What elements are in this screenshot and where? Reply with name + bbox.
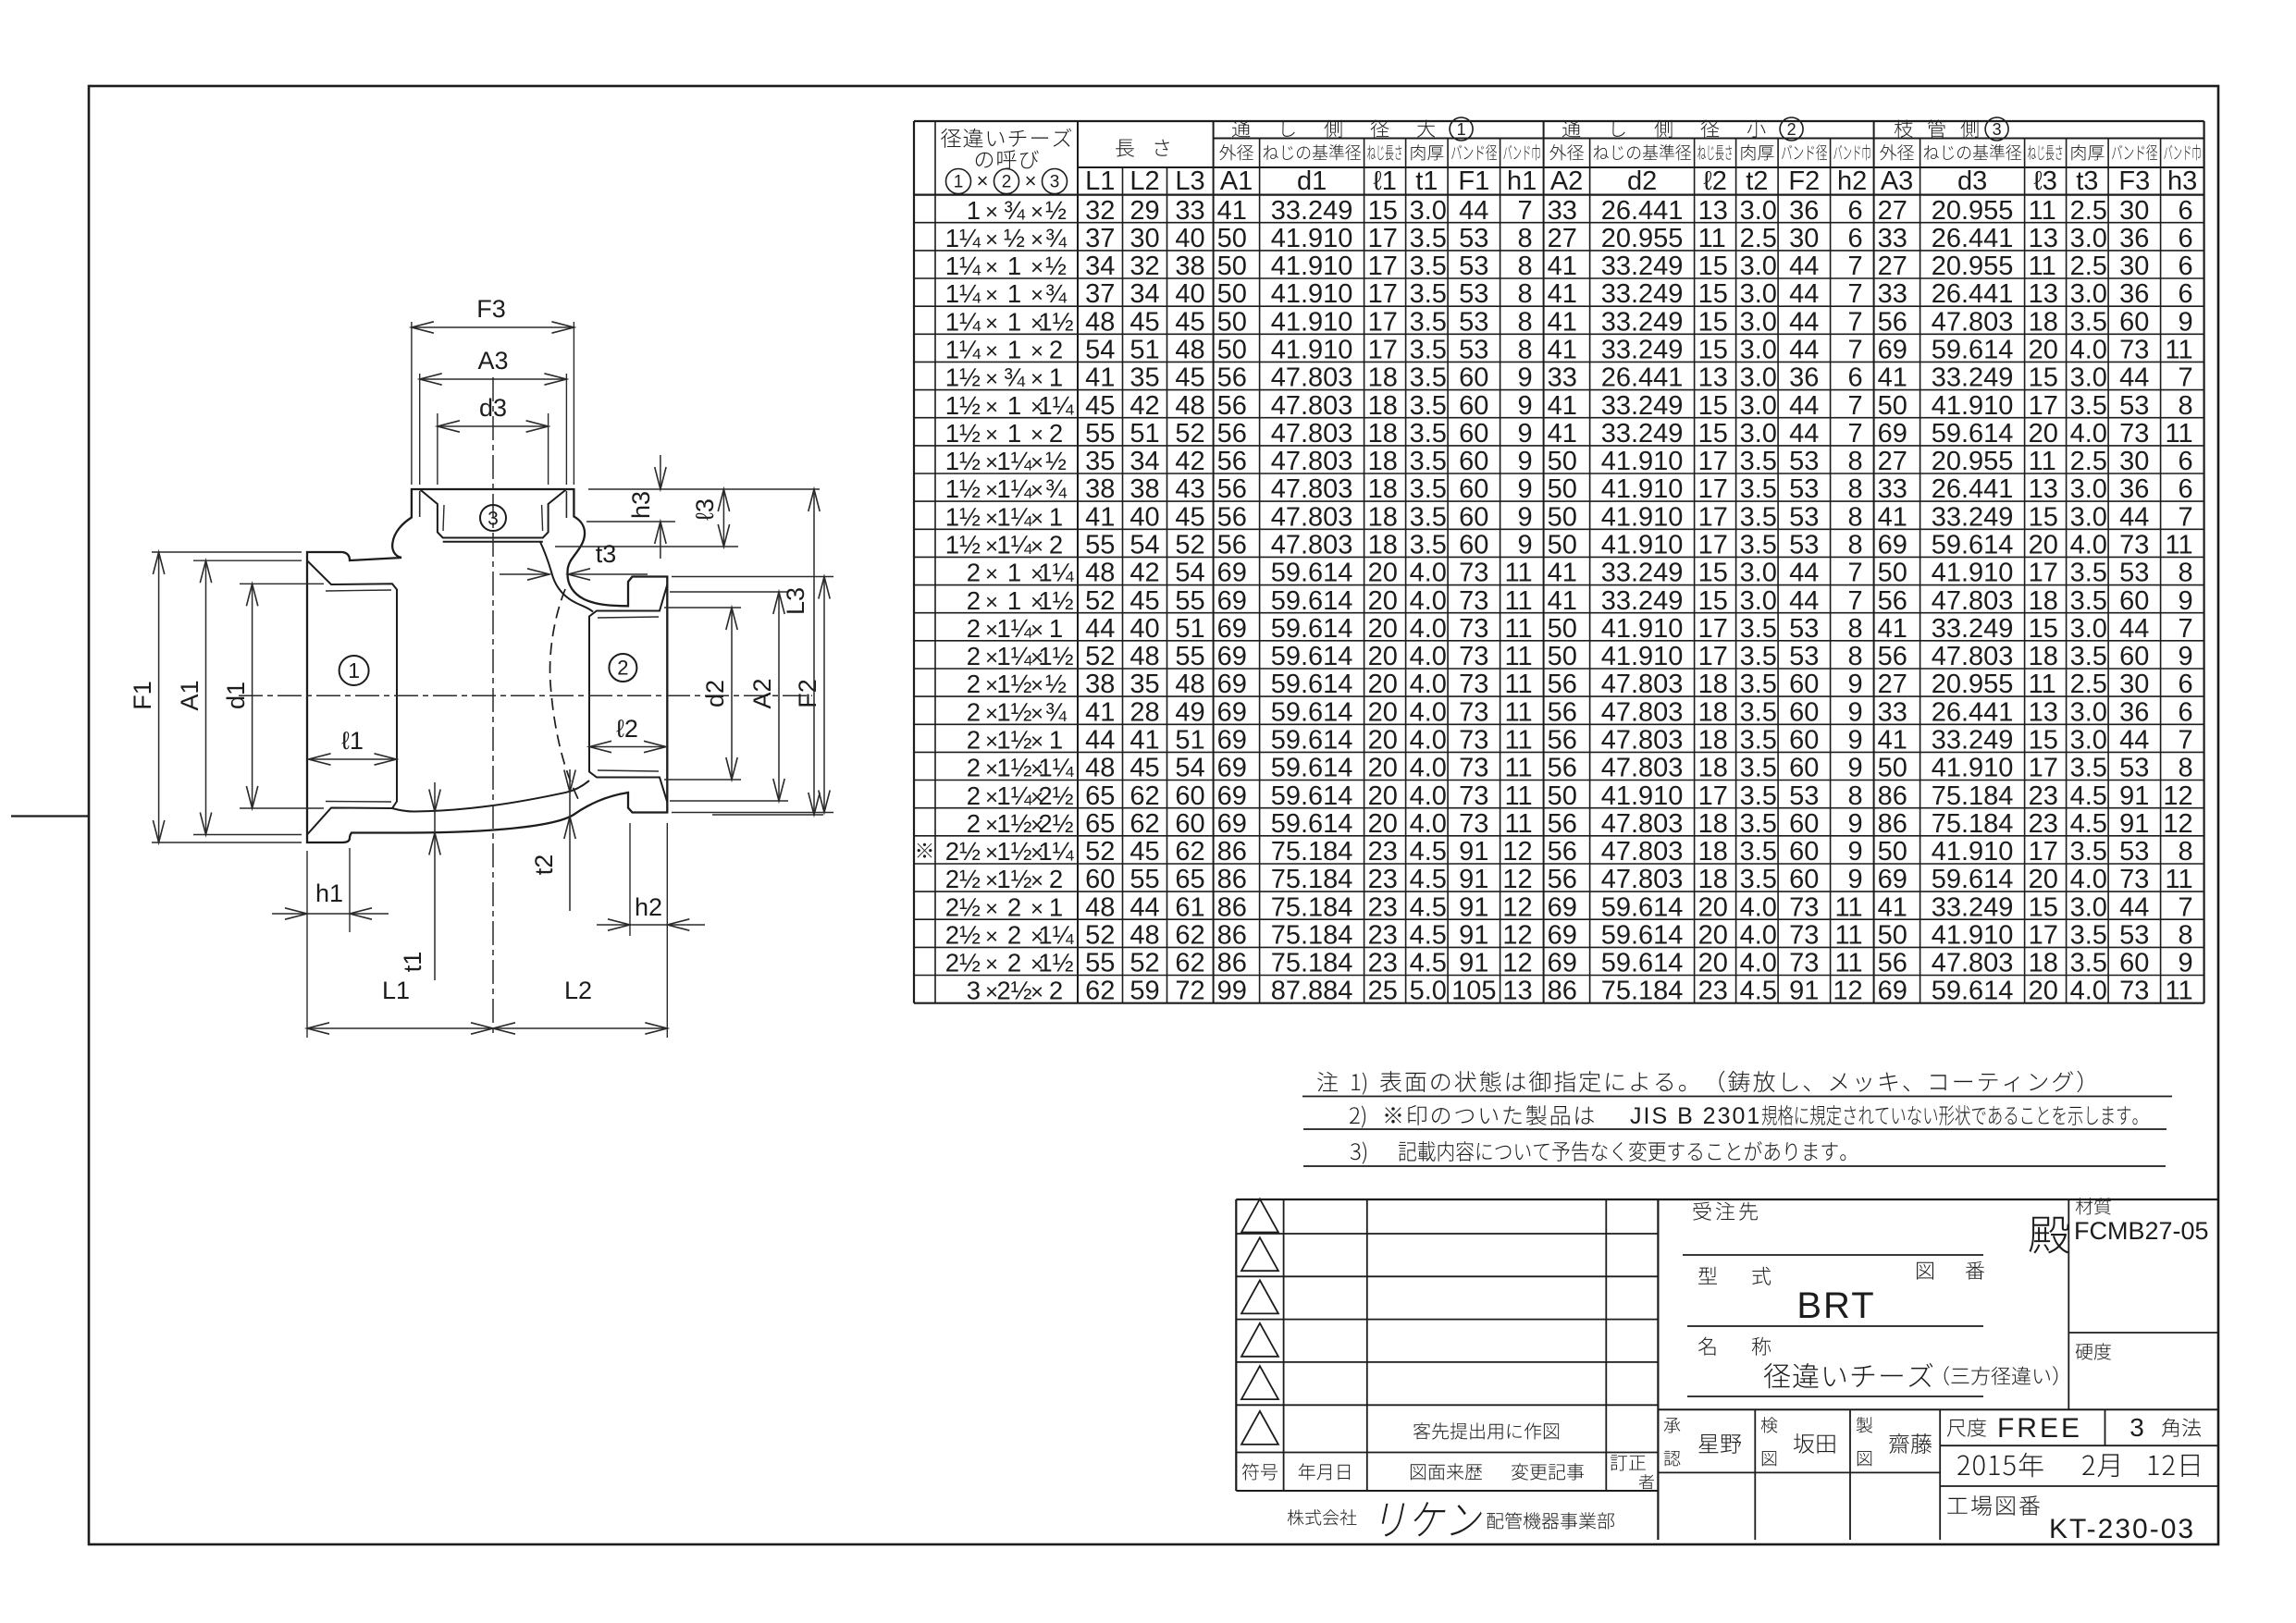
svg-text:9: 9 — [2178, 586, 2192, 616]
svg-text:t3: t3 — [2076, 166, 2098, 196]
svg-text:40: 40 — [1129, 502, 1159, 532]
svg-text:41: 41 — [1217, 196, 1247, 226]
sheet centering mark left edge — [11, 815, 89, 817]
svg-text:4.0: 4.0 — [1410, 754, 1447, 783]
svg-text:41: 41 — [1548, 559, 1577, 588]
svg-text:41.910: 41.910 — [1601, 474, 1684, 504]
svg-text:72: 72 — [1175, 977, 1204, 1006]
svg-text:3.5: 3.5 — [2070, 559, 2107, 588]
svg-text:27: 27 — [1878, 196, 1907, 226]
svg-text:6: 6 — [2178, 447, 2192, 476]
svg-text:3.0: 3.0 — [2070, 363, 2107, 393]
svg-text:2.5: 2.5 — [1740, 224, 1777, 253]
svg-text:91: 91 — [2119, 809, 2149, 839]
svg-text:33.249: 33.249 — [1601, 391, 1684, 421]
svg-text:18: 18 — [1698, 670, 1728, 699]
svg-text:69: 69 — [1217, 697, 1247, 727]
svg-text:30: 30 — [2119, 196, 2149, 226]
dim A1 — [193, 559, 302, 561]
svg-text:48: 48 — [1085, 307, 1115, 337]
dim h1 — [306, 851, 308, 1038]
svg-text:9: 9 — [1847, 670, 1862, 699]
dim d3 — [437, 413, 438, 485]
svg-text:41.910: 41.910 — [1601, 531, 1684, 560]
svg-text:41: 41 — [1085, 363, 1115, 393]
svg-text:56: 56 — [1217, 531, 1247, 560]
svg-text:86: 86 — [1878, 781, 1907, 811]
svg-text:12: 12 — [1502, 892, 1532, 922]
dim t3 — [500, 573, 549, 575]
svg-text:4.0: 4.0 — [1740, 921, 1777, 951]
svg-text:27: 27 — [1548, 224, 1577, 253]
svg-text:32: 32 — [1129, 252, 1159, 281]
svg-text:3.0: 3.0 — [1740, 559, 1777, 588]
svg-text:×: × — [985, 953, 998, 977]
svg-text:26.441: 26.441 — [1932, 279, 2014, 309]
svg-text:×: × — [1031, 283, 1043, 308]
svg-text:11: 11 — [2165, 419, 2192, 449]
svg-text:30: 30 — [2119, 252, 2149, 281]
svg-text:33: 33 — [1878, 224, 1907, 253]
svg-text:13: 13 — [1698, 363, 1728, 393]
svg-text:17: 17 — [2029, 559, 2058, 588]
dim t1 — [434, 782, 436, 980]
svg-text:50: 50 — [1878, 837, 1907, 867]
svg-text:13: 13 — [2029, 279, 2058, 309]
svg-text:30: 30 — [1129, 224, 1159, 253]
svg-text:48: 48 — [1085, 559, 1115, 588]
svg-text:33.249: 33.249 — [1601, 307, 1684, 337]
dim F1 — [152, 551, 302, 553]
svg-text:4.0: 4.0 — [1410, 559, 1447, 588]
svg-text:1½: 1½ — [996, 697, 1031, 726]
svg-text:69: 69 — [1217, 614, 1247, 644]
svg-text:30: 30 — [1789, 224, 1819, 253]
svg-text:55: 55 — [1085, 949, 1115, 978]
svg-text:1: 1 — [954, 173, 964, 192]
svg-text:75.184: 75.184 — [1271, 865, 1353, 894]
svg-text:×: × — [985, 590, 998, 615]
svg-text:41.910: 41.910 — [1601, 502, 1684, 532]
svg-text:49: 49 — [1175, 697, 1204, 727]
dim d2 — [664, 607, 741, 609]
svg-text:41: 41 — [1548, 252, 1577, 281]
tee fitting body outer profile — [307, 489, 667, 842]
svg-text:17: 17 — [1698, 781, 1728, 811]
svg-text:91: 91 — [1459, 865, 1488, 894]
svg-text:36: 36 — [2119, 697, 2149, 727]
svg-text:33.249: 33.249 — [1932, 892, 2014, 922]
svg-text:59.614: 59.614 — [1271, 781, 1353, 811]
svg-text:1¼: 1¼ — [996, 447, 1032, 475]
svg-text:12: 12 — [2163, 781, 2192, 811]
svg-text:20: 20 — [1368, 586, 1398, 616]
svg-text:50: 50 — [1548, 502, 1577, 532]
svg-text:t1: t1 — [399, 952, 426, 973]
svg-text:18: 18 — [1698, 809, 1728, 839]
svg-text:×: × — [985, 896, 998, 921]
table header: name column — [941, 129, 1071, 148]
svg-text:4.0: 4.0 — [1410, 809, 1447, 839]
svg-text:11: 11 — [2165, 336, 2192, 365]
svg-text:11: 11 — [2165, 531, 2192, 560]
svg-text:15: 15 — [1698, 279, 1728, 309]
svg-text:×: × — [1031, 255, 1043, 280]
svg-text:47.803: 47.803 — [1601, 697, 1684, 727]
svg-text:×: × — [985, 367, 998, 392]
dim L1 — [307, 1027, 493, 1029]
svg-text:60: 60 — [1459, 531, 1488, 560]
svg-text:3.5: 3.5 — [1740, 502, 1777, 532]
svg-text:48: 48 — [1129, 921, 1159, 951]
svg-text:3.5: 3.5 — [2070, 391, 2107, 421]
svg-text:9: 9 — [1847, 837, 1862, 867]
svg-text:2: 2 — [1007, 949, 1021, 977]
svg-text:1½: 1½ — [945, 363, 981, 392]
svg-text:73: 73 — [1459, 670, 1488, 699]
svg-text:×: × — [1031, 701, 1043, 726]
svg-text:A2: A2 — [748, 678, 776, 708]
svg-text:L1: L1 — [382, 977, 410, 1004]
svg-text:56: 56 — [1217, 391, 1247, 421]
svg-text:18: 18 — [1698, 754, 1728, 783]
svg-text:33.249: 33.249 — [1601, 279, 1684, 309]
svg-text:3.5: 3.5 — [1410, 531, 1447, 560]
svg-text:1: 1 — [348, 658, 360, 682]
svg-text:20: 20 — [1368, 559, 1398, 588]
svg-text:56: 56 — [1217, 419, 1247, 449]
svg-text:59.614: 59.614 — [1601, 949, 1684, 978]
svg-text:15: 15 — [1698, 252, 1728, 281]
svg-text:2½: 2½ — [945, 865, 981, 893]
svg-text:33.249: 33.249 — [1932, 726, 2014, 756]
svg-text:54: 54 — [1129, 531, 1159, 560]
socket 1 interior (left, thread bore) — [307, 560, 397, 834]
svg-text:23: 23 — [2029, 809, 2058, 839]
svg-text:3.0: 3.0 — [2070, 474, 2107, 504]
svg-text:d1: d1 — [1297, 166, 1327, 196]
svg-text:3.0: 3.0 — [1740, 363, 1777, 393]
svg-text:7: 7 — [1847, 279, 1862, 309]
svg-text:×: × — [1031, 506, 1043, 531]
svg-text:17: 17 — [1368, 224, 1398, 253]
svg-text:62: 62 — [1129, 781, 1159, 811]
svg-text:73: 73 — [2119, 419, 2149, 449]
svg-text:h2: h2 — [1837, 166, 1867, 196]
svg-text:56: 56 — [1217, 474, 1247, 504]
svg-text:55: 55 — [1085, 531, 1115, 560]
dim h3 — [588, 488, 820, 490]
svg-text:15: 15 — [2029, 726, 2058, 756]
svg-text:91: 91 — [1459, 921, 1488, 951]
svg-text:3: 3 — [2129, 1413, 2144, 1442]
svg-text:56: 56 — [1548, 865, 1577, 894]
svg-text:65: 65 — [1085, 809, 1115, 839]
svg-text:1¼: 1¼ — [945, 252, 981, 280]
svg-text:20: 20 — [1368, 809, 1398, 839]
svg-text:41: 41 — [1878, 726, 1907, 756]
svg-text:ℓ3: ℓ3 — [2033, 166, 2057, 196]
svg-text:7: 7 — [1847, 586, 1862, 616]
svg-text:FREE: FREE — [1997, 1413, 2082, 1444]
svg-text:3: 3 — [1050, 173, 1060, 192]
svg-text:45: 45 — [1175, 502, 1204, 532]
svg-text:t3: t3 — [596, 540, 617, 568]
svg-text:7: 7 — [1847, 307, 1862, 337]
svg-text:1¼: 1¼ — [1038, 754, 1074, 782]
svg-text:17: 17 — [1698, 474, 1728, 504]
svg-text:5.0: 5.0 — [1410, 977, 1447, 1006]
svg-text:26.441: 26.441 — [1601, 196, 1684, 226]
svg-text:33.249: 33.249 — [1932, 363, 2014, 393]
svg-text:9: 9 — [1847, 754, 1862, 783]
svg-text:6: 6 — [2178, 196, 2192, 226]
svg-text:44: 44 — [1085, 726, 1115, 756]
svg-text:41: 41 — [1085, 697, 1115, 727]
svg-text:40: 40 — [1129, 614, 1159, 644]
svg-text:41: 41 — [1878, 363, 1907, 393]
svg-text:91: 91 — [1459, 949, 1488, 978]
svg-text:59.614: 59.614 — [1271, 642, 1353, 671]
svg-text:3.5: 3.5 — [1410, 474, 1447, 504]
svg-text:23: 23 — [1368, 837, 1398, 867]
svg-text:1¼: 1¼ — [945, 279, 981, 308]
svg-text:×: × — [1031, 673, 1043, 698]
svg-text:1½: 1½ — [996, 754, 1031, 782]
svg-text:36: 36 — [2119, 474, 2149, 504]
svg-text:69: 69 — [1217, 642, 1247, 671]
svg-text:×: × — [1031, 868, 1043, 893]
svg-text:½: ½ — [1045, 252, 1067, 280]
svg-text:ℓ1: ℓ1 — [1373, 166, 1397, 196]
svg-text:33.249: 33.249 — [1601, 419, 1684, 449]
svg-text:23: 23 — [2029, 781, 2058, 811]
svg-text:F3: F3 — [2118, 166, 2150, 196]
svg-text:3.5: 3.5 — [1740, 809, 1777, 839]
svg-text:56: 56 — [1548, 697, 1577, 727]
svg-text:1½: 1½ — [996, 837, 1031, 866]
svg-text:34: 34 — [1129, 447, 1159, 476]
svg-text:15: 15 — [2029, 892, 2058, 922]
svg-text:1: 1 — [967, 196, 981, 225]
svg-text:17: 17 — [1698, 502, 1728, 532]
port number 3 — [480, 505, 506, 531]
svg-text:BRT: BRT — [1796, 1285, 1875, 1326]
svg-text:15: 15 — [1698, 307, 1728, 337]
svg-text:6: 6 — [2178, 697, 2192, 727]
svg-text:×: × — [985, 562, 998, 587]
svg-text:3.0: 3.0 — [1740, 336, 1777, 365]
svg-text:36: 36 — [2119, 279, 2149, 309]
svg-text:×: × — [1031, 423, 1043, 448]
svg-text:53: 53 — [1789, 447, 1819, 476]
svg-text:44: 44 — [1085, 614, 1115, 644]
svg-text:50: 50 — [1878, 391, 1907, 421]
svg-text:3.0: 3.0 — [1740, 307, 1777, 337]
svg-text:9: 9 — [1517, 531, 1532, 560]
svg-text:2: 2 — [967, 697, 981, 726]
svg-text:69: 69 — [1217, 754, 1247, 783]
svg-text:37: 37 — [1085, 279, 1115, 309]
svg-text:20: 20 — [1698, 921, 1728, 951]
svg-text:3.5: 3.5 — [1740, 447, 1777, 476]
svg-text:1¼: 1¼ — [1038, 559, 1074, 587]
svg-text:9: 9 — [1517, 363, 1532, 393]
company row — [1288, 1509, 1357, 1525]
svg-text:60: 60 — [1789, 726, 1819, 756]
svg-text:40: 40 — [1175, 279, 1204, 309]
svg-text:17: 17 — [1368, 336, 1398, 365]
svg-text:45: 45 — [1085, 391, 1115, 421]
svg-text:2: 2 — [967, 642, 981, 670]
svg-text:18: 18 — [1368, 474, 1398, 504]
svg-text:73: 73 — [2119, 865, 2149, 894]
svg-text:8: 8 — [1517, 307, 1532, 337]
svg-text:L3: L3 — [1175, 166, 1204, 196]
svg-text:9: 9 — [1847, 865, 1862, 894]
svg-text:48: 48 — [1175, 336, 1204, 365]
svg-text:L2: L2 — [1129, 166, 1159, 196]
svg-text:8: 8 — [1517, 252, 1532, 281]
svg-text:56: 56 — [1217, 363, 1247, 393]
svg-text:ℓ3: ℓ3 — [691, 498, 719, 521]
svg-text:×: × — [985, 925, 998, 950]
svg-text:4.0: 4.0 — [1410, 614, 1447, 644]
svg-text:26.441: 26.441 — [1932, 697, 2014, 727]
svg-text:52: 52 — [1129, 949, 1159, 978]
svg-text:½: ½ — [1045, 670, 1067, 698]
svg-text:1½: 1½ — [1038, 586, 1073, 615]
svg-text:20.955: 20.955 — [1932, 196, 2014, 226]
svg-text:17: 17 — [1698, 642, 1728, 671]
svg-text:99: 99 — [1217, 977, 1247, 1006]
svg-text:3.5: 3.5 — [2070, 949, 2107, 978]
svg-text:3.5: 3.5 — [2070, 642, 2107, 671]
svg-text:59.614: 59.614 — [1932, 336, 2014, 365]
svg-text:73: 73 — [2119, 336, 2149, 365]
svg-text:59: 59 — [1129, 977, 1159, 1006]
svg-text:20: 20 — [1368, 726, 1398, 756]
svg-text:44: 44 — [1789, 419, 1819, 449]
svg-text:13: 13 — [1502, 977, 1532, 1006]
svg-text:6: 6 — [1847, 363, 1862, 393]
svg-text:½: ½ — [1045, 196, 1067, 225]
svg-text:73: 73 — [1459, 809, 1488, 839]
svg-text:3.5: 3.5 — [1740, 726, 1777, 756]
svg-text:52: 52 — [1085, 837, 1115, 867]
dim l1 — [309, 758, 397, 760]
svg-text:7: 7 — [2178, 614, 2192, 644]
svg-text:41: 41 — [1548, 586, 1577, 616]
approval row — [1658, 1408, 2218, 1410]
svg-text:11: 11 — [2029, 447, 2056, 476]
svg-text:55: 55 — [1129, 865, 1159, 894]
svg-text:2½: 2½ — [945, 837, 981, 866]
svg-text:L1: L1 — [1085, 166, 1115, 196]
svg-text:4.0: 4.0 — [2070, 336, 2107, 365]
svg-text:3.5: 3.5 — [1740, 670, 1777, 699]
svg-text:4.0: 4.0 — [1740, 892, 1777, 922]
svg-text:18: 18 — [2029, 586, 2058, 616]
svg-text:4.0: 4.0 — [1410, 781, 1447, 811]
svg-text:7: 7 — [1847, 559, 1862, 588]
svg-text:105: 105 — [1451, 977, 1496, 1006]
svg-text:1: 1 — [1049, 892, 1063, 921]
svg-text:50: 50 — [1548, 447, 1577, 476]
svg-text:8: 8 — [2178, 391, 2192, 421]
svg-text:4.0: 4.0 — [1410, 586, 1447, 616]
svg-text:73: 73 — [1459, 726, 1488, 756]
svg-text:ℓ1: ℓ1 — [341, 727, 364, 755]
svg-text:62: 62 — [1175, 921, 1204, 951]
svg-text:50: 50 — [1217, 336, 1247, 365]
svg-text:1¼: 1¼ — [996, 781, 1032, 810]
svg-text:47.803: 47.803 — [1271, 419, 1353, 449]
svg-text:53: 53 — [1789, 781, 1819, 811]
svg-text:A2: A2 — [1550, 166, 1583, 196]
svg-text:¾: ¾ — [1004, 363, 1026, 392]
svg-text:3.0: 3.0 — [1740, 586, 1777, 616]
svg-text:60: 60 — [1459, 474, 1488, 504]
svg-text:½: ½ — [1004, 224, 1025, 252]
svg-text:11: 11 — [1834, 949, 1862, 978]
svg-text:17: 17 — [2029, 391, 2058, 421]
svg-text:11: 11 — [1504, 754, 1532, 783]
dim l3 — [555, 546, 738, 547]
svg-text:13: 13 — [2029, 224, 2058, 253]
svg-text:1¼: 1¼ — [1038, 921, 1074, 950]
svg-text:23: 23 — [1698, 977, 1728, 1006]
svg-text:44: 44 — [2119, 726, 2149, 756]
svg-text:9: 9 — [1517, 447, 1532, 476]
svg-text:75.184: 75.184 — [1601, 977, 1684, 1006]
svg-text:59.614: 59.614 — [1601, 921, 1684, 951]
svg-text:3.5: 3.5 — [1740, 531, 1777, 560]
svg-text:8: 8 — [1517, 336, 1532, 365]
svg-text:73: 73 — [1789, 892, 1819, 922]
svg-text:47.803: 47.803 — [1271, 391, 1353, 421]
svg-text:20.955: 20.955 — [1932, 670, 2014, 699]
svg-text:¾: ¾ — [1004, 196, 1026, 225]
svg-text:8: 8 — [1847, 614, 1862, 644]
svg-text:59.614: 59.614 — [1932, 419, 2014, 449]
svg-text:h3: h3 — [2167, 166, 2197, 196]
svg-text:44: 44 — [1789, 559, 1819, 588]
svg-text:F3: F3 — [476, 295, 506, 323]
svg-text:3.0: 3.0 — [2070, 279, 2107, 309]
svg-text:¾: ¾ — [1045, 474, 1068, 503]
svg-text:2: 2 — [967, 586, 981, 615]
svg-text:73: 73 — [1459, 586, 1488, 616]
svg-text:6: 6 — [2178, 474, 2192, 504]
svg-text:4.5: 4.5 — [1410, 949, 1447, 978]
svg-text:1: 1 — [1049, 502, 1063, 531]
svg-text:34: 34 — [1129, 279, 1159, 309]
svg-text:2½: 2½ — [945, 921, 981, 950]
svg-text:3: 3 — [488, 508, 499, 529]
svg-text:33: 33 — [1878, 697, 1907, 727]
svg-text:×: × — [985, 311, 998, 336]
svg-text:1: 1 — [1007, 586, 1021, 615]
svg-text:11: 11 — [1504, 809, 1532, 839]
svg-text:50: 50 — [1548, 474, 1577, 504]
svg-text:L2: L2 — [564, 977, 592, 1004]
svg-text:20: 20 — [1698, 892, 1728, 922]
svg-text:56: 56 — [1217, 502, 1247, 532]
dimension table grid — [914, 120, 2204, 122]
svg-text:2: 2 — [1049, 531, 1063, 559]
svg-text:34: 34 — [1085, 252, 1115, 281]
